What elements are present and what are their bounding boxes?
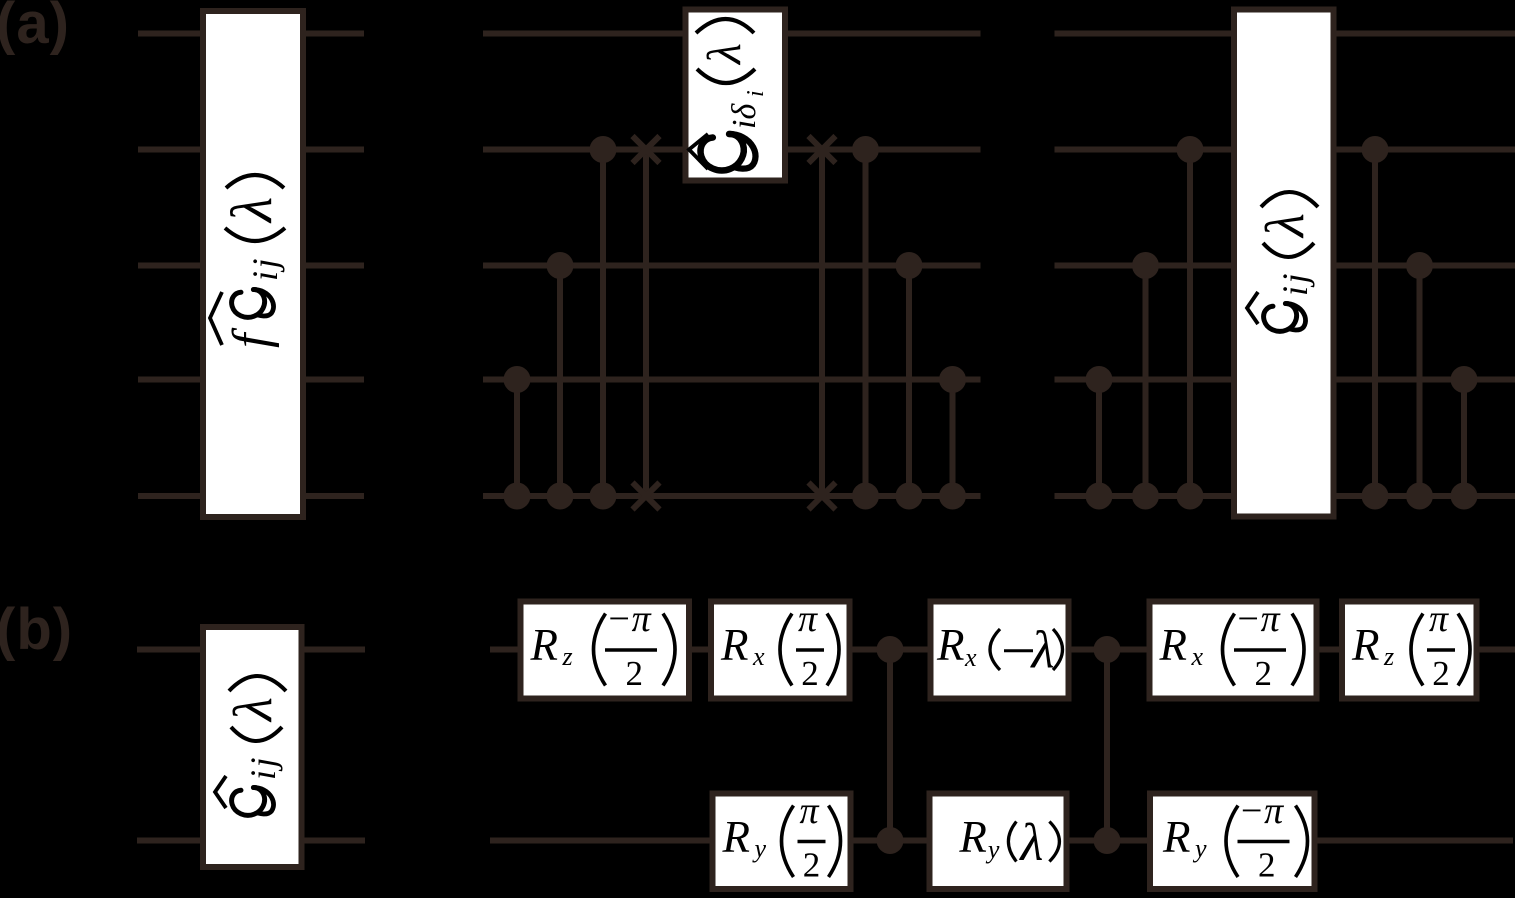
- gate label Rz(pi/2): [1351, 598, 1470, 693]
- vertical control line q3-q5 at x=560: [557, 266, 563, 497]
- vertical swap line q2-q5 at x=822: [819, 150, 825, 497]
- svg-text:R: R: [1351, 620, 1380, 670]
- control dot q2 x=1375: [1362, 136, 1389, 163]
- wire a-mid q5: [483, 493, 981, 499]
- svg-text:z: z: [1383, 642, 1394, 671]
- svg-text:R: R: [530, 620, 559, 670]
- svg-text:ij: ij: [1275, 271, 1315, 296]
- wire b-right q1: [490, 647, 1515, 653]
- wire a-right q5: [1055, 493, 1515, 499]
- svg-text:iδ: iδ: [726, 103, 763, 129]
- svg-text:λ: λ: [219, 197, 284, 224]
- gate label Rx(-lambda): [936, 620, 1063, 679]
- svg-text:R: R: [936, 620, 965, 670]
- control dot q4 x=952.5: [939, 366, 966, 393]
- control dot q3 x=1419.5: [1406, 252, 1433, 279]
- svg-text:λ: λ: [1254, 213, 1315, 239]
- svg-text:−π: −π: [606, 598, 652, 640]
- wire a-left q4: [138, 377, 364, 383]
- wire b-right q2: [490, 838, 1513, 844]
- vertical control line b x=890: [887, 650, 893, 841]
- control dot q4 x=517: [504, 366, 531, 393]
- svg-text:R: R: [958, 812, 987, 862]
- svg-text:2: 2: [1432, 654, 1450, 693]
- control dot q5 x=865.5: [852, 483, 879, 510]
- control dot q5 x=1190: [1177, 483, 1204, 510]
- svg-text:π: π: [798, 598, 818, 640]
- gate box Ry(-pi/2): [1150, 794, 1315, 890]
- svg-text:R: R: [720, 620, 749, 670]
- wire a-mid q3: [483, 263, 981, 269]
- gate box Rz(pi/2): [1342, 602, 1477, 699]
- svg-text:λ: λ: [1030, 621, 1055, 679]
- control dot q5 x=1099: [1086, 483, 1113, 510]
- control dot q5 x=909: [896, 483, 923, 510]
- svg-text:π: π: [1429, 598, 1449, 640]
- swap cross q2 x=822: [809, 136, 836, 163]
- wire a-left q5: [138, 493, 364, 499]
- svg-text:−π: −π: [1235, 598, 1281, 640]
- wire a-right q3: [1055, 263, 1515, 269]
- vertical control line q2-q5 at x=1190: [1187, 150, 1193, 497]
- svg-text:λ: λ: [222, 697, 283, 723]
- svg-text:x: x: [1191, 642, 1204, 671]
- swap cross q5 x=646: [633, 483, 660, 510]
- control dot b q2 x=1107: [1094, 827, 1121, 854]
- control dot q4 x=1464: [1451, 366, 1478, 393]
- gate label Ry(lambda): [958, 812, 1059, 872]
- svg-text:ij: ij: [245, 256, 285, 281]
- control dot b q1 x=1107: [1094, 636, 1121, 663]
- control dot q5 x=1145.5: [1132, 483, 1159, 510]
- svg-text:2: 2: [1258, 846, 1276, 885]
- svg-text:x: x: [964, 643, 977, 672]
- gate label Ry(pi/2): [722, 790, 841, 885]
- control dot q5 x=1464: [1451, 483, 1478, 510]
- control dot q5 x=952.5: [939, 483, 966, 510]
- gate label Rx(pi/2): [720, 598, 839, 693]
- gate label G_idelta(lambda): [689, 19, 769, 170]
- wire a-left q3: [138, 263, 364, 269]
- wire a-mid q2: [483, 147, 981, 153]
- gate box fG_ij(lambda): [203, 11, 303, 517]
- vertical control line q3-q5 at x=1145.5: [1143, 266, 1149, 497]
- swap cross q2 x=646: [633, 136, 660, 163]
- gate box Ry(pi/2): [713, 794, 851, 890]
- gate box Rz(-pi/2): [521, 602, 690, 699]
- gate box G_ij(lambda) right: [1234, 10, 1334, 517]
- gate label Rz(-pi/2): [530, 598, 676, 693]
- wire a-left q1: [138, 31, 364, 37]
- svg-text:−π: −π: [1239, 790, 1285, 832]
- wire a-mid q4: [483, 377, 981, 383]
- gate box Rx(-lambda): [931, 602, 1069, 699]
- svg-text:x: x: [752, 642, 765, 671]
- gate label G_ij(lambda) right: [1247, 192, 1318, 331]
- wire a-right q1: [1055, 31, 1515, 37]
- control dot q3 x=560: [547, 252, 574, 279]
- control dot q3 x=909: [896, 252, 923, 279]
- svg-text:i: i: [743, 90, 769, 97]
- vertical control line q4-q5 at x=1099: [1096, 380, 1102, 497]
- vertical control line q3-q5 at x=1419.5: [1417, 266, 1423, 497]
- vertical control line q4-q5 at x=952.5: [950, 380, 956, 497]
- svg-text:2: 2: [801, 654, 819, 693]
- gate box Rx(-pi/2): [1150, 602, 1317, 699]
- svg-text:2: 2: [803, 846, 821, 885]
- svg-text:y: y: [752, 834, 767, 863]
- control dot q5 x=1419.5: [1406, 483, 1433, 510]
- gate box G_idelta(lambda): [686, 10, 786, 181]
- wire b-left q1: [137, 647, 365, 653]
- gate box Rx(pi/2): [711, 602, 850, 699]
- svg-text:z: z: [562, 642, 573, 671]
- gate box G_ij(lambda) panel b: [203, 627, 302, 867]
- wire a-right q2: [1055, 147, 1515, 153]
- control dot q5 x=517: [504, 483, 531, 510]
- swap cross q5 x=822: [809, 483, 836, 510]
- control dot q5 x=1375: [1362, 483, 1389, 510]
- control dot q4 x=1099: [1086, 366, 1113, 393]
- svg-text:y: y: [1192, 834, 1207, 863]
- svg-text:λ: λ: [1018, 814, 1043, 872]
- svg-text:ij: ij: [243, 755, 283, 780]
- control dot q5 x=603: [590, 483, 617, 510]
- control dot q2 x=603: [590, 136, 617, 163]
- gate label G_ij(lambda) panel b: [215, 676, 286, 815]
- control dot b q1 x=890: [877, 636, 904, 663]
- svg-text:y: y: [985, 835, 1000, 864]
- svg-text:R: R: [1162, 812, 1191, 862]
- control dot q2 x=1190: [1177, 136, 1204, 163]
- control dot q3 x=1145.5: [1132, 252, 1159, 279]
- gate box Ry(lambda): [930, 794, 1067, 890]
- vertical control line q3-q5 at x=909: [906, 266, 912, 497]
- svg-text:(b): (b): [0, 597, 73, 662]
- wire b-left q2: [137, 838, 365, 844]
- gate label Ry(-pi/2): [1162, 790, 1308, 885]
- svg-text:R: R: [1159, 620, 1188, 670]
- svg-text:λ: λ: [698, 43, 751, 66]
- wire a-right q4: [1055, 377, 1515, 383]
- gate label fG_ij(lambda): [210, 175, 285, 348]
- svg-text:2: 2: [1255, 654, 1273, 693]
- gate label Rx(-pi/2): [1159, 598, 1305, 693]
- vertical control line b x=1107: [1104, 650, 1110, 841]
- svg-text:R: R: [722, 812, 751, 862]
- vertical control line q2-q5 at x=603: [600, 150, 606, 497]
- svg-text:2: 2: [626, 654, 644, 693]
- vertical swap line q2-q5 at x=646: [643, 150, 649, 497]
- wire a-mid q1: [483, 31, 981, 37]
- vertical control line q2-q5 at x=865.5: [863, 150, 869, 497]
- wire a-left q2: [138, 147, 364, 153]
- vertical control line q4-q5 at x=517: [514, 380, 520, 497]
- control dot q5 x=560: [547, 483, 574, 510]
- control dot q2 x=865.5: [852, 136, 879, 163]
- control dot b q2 x=890: [877, 827, 904, 854]
- svg-text:(a): (a): [0, 0, 70, 56]
- vertical control line q2-q5 at x=1375: [1372, 150, 1378, 497]
- vertical control line q4-q5 at x=1464: [1461, 380, 1467, 497]
- svg-text:π: π: [800, 790, 820, 832]
